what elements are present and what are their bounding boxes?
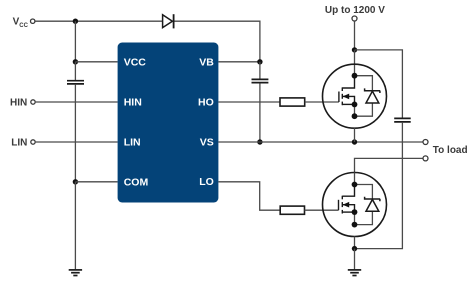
svg-text:HIN: HIN — [124, 97, 142, 109]
wire Vcc terminal to diode anode — [35, 20, 162, 22]
svg-text:LIN: LIN — [124, 137, 141, 149]
svg-text:HIN: HIN — [10, 98, 27, 109]
svg-text:To load: To load — [433, 145, 468, 156]
terminal To load (phase) — [423, 140, 428, 145]
junction HV bus node — [352, 47, 357, 52]
diode D1 (bootstrap) — [163, 14, 174, 28]
wire VCC node down to capacitor C1 — [74, 62, 76, 80]
svg-text:VS: VS — [200, 137, 214, 149]
wire HV bus into Q1 drain — [354, 50, 356, 76]
svg-text:VCC: VCC — [124, 57, 147, 69]
svg-text:CC: CC — [19, 23, 28, 29]
IC U1 gate driver body — [118, 43, 219, 203]
wire resistor R2 to Q2 gate — [305, 209, 339, 211]
ground (right) — [348, 270, 361, 276]
wire VB node down to capacitor C2 — [259, 62, 261, 79]
transistor Q1 (high-side SiC MOSFET) — [323, 64, 387, 128]
junction Vcc node — [73, 19, 78, 24]
terminal Vcc — [31, 19, 35, 23]
wire ground node down to ground symbol — [354, 249, 356, 270]
wire VCC pin stub into IC — [75, 61, 117, 63]
junction ground node — [352, 246, 357, 251]
svg-text:VB: VB — [199, 57, 214, 69]
wire resistor R1 to Q1 gate — [305, 101, 339, 103]
wire capacitor C1 bottom to COM node — [74, 85, 76, 182]
wire VB pin to bootstrap node — [218, 61, 260, 63]
wire HIN terminal to HIN pin — [36, 101, 118, 103]
wire capacitor C3 bottom to ground node — [355, 123, 403, 249]
svg-text:COM: COM — [124, 176, 149, 188]
capacitor C3 (DC link) — [394, 118, 411, 122]
wire Q1 source to VS node — [354, 128, 356, 142]
junction VB bootstrap node — [257, 59, 262, 64]
terminal To load (return) — [423, 156, 428, 161]
net label Vcc — [13, 17, 29, 29]
wire COM pin stub into IC — [75, 181, 117, 183]
terminal LIN — [31, 140, 35, 144]
wire diode cathode to VB bootstrap corner — [175, 21, 260, 62]
svg-text:LO: LO — [199, 176, 214, 188]
capacitor C1 (VCC decoupling) — [67, 81, 84, 84]
resistor R2 (low-side gate) — [280, 206, 304, 214]
wire Q2 drain to To-load return terminal — [355, 158, 423, 172]
wire Q2 source to ground node — [354, 237, 356, 249]
ground (left) — [69, 270, 82, 276]
svg-text:LIN: LIN — [11, 138, 27, 149]
terminal HIN — [31, 100, 35, 104]
resistor R1 (high-side gate) — [280, 98, 305, 106]
wire VS pin to To-load terminal — [218, 141, 423, 143]
svg-text:Up to 1200 V: Up to 1200 V — [325, 5, 385, 16]
wire LO pin jog to gate resistor R2 — [218, 182, 280, 210]
junction COM node — [73, 179, 78, 184]
wire HV terminal down to bus node — [354, 21, 356, 50]
terminal HV bus — [352, 16, 357, 21]
wire LIN terminal to LIN pin — [36, 141, 118, 143]
junction VS at Q1 source — [352, 139, 357, 144]
junction VCC pin node — [73, 59, 78, 64]
wire COM node down to ground — [74, 182, 76, 269]
junction VS bootstrap node — [257, 139, 262, 144]
svg-text:HO: HO — [198, 97, 214, 109]
wire Vcc node down to VCC pin node — [74, 21, 76, 62]
wire HV bus node to DC-link capacitor C3 — [355, 50, 403, 118]
wire capacitor C2 bottom to VS line — [259, 83, 261, 142]
capacitor C2 (bootstrap) — [252, 79, 269, 82]
wire HO pin to gate resistor R1 — [218, 101, 280, 103]
transistor Q2 (low-side SiC MOSFET) — [323, 172, 387, 236]
